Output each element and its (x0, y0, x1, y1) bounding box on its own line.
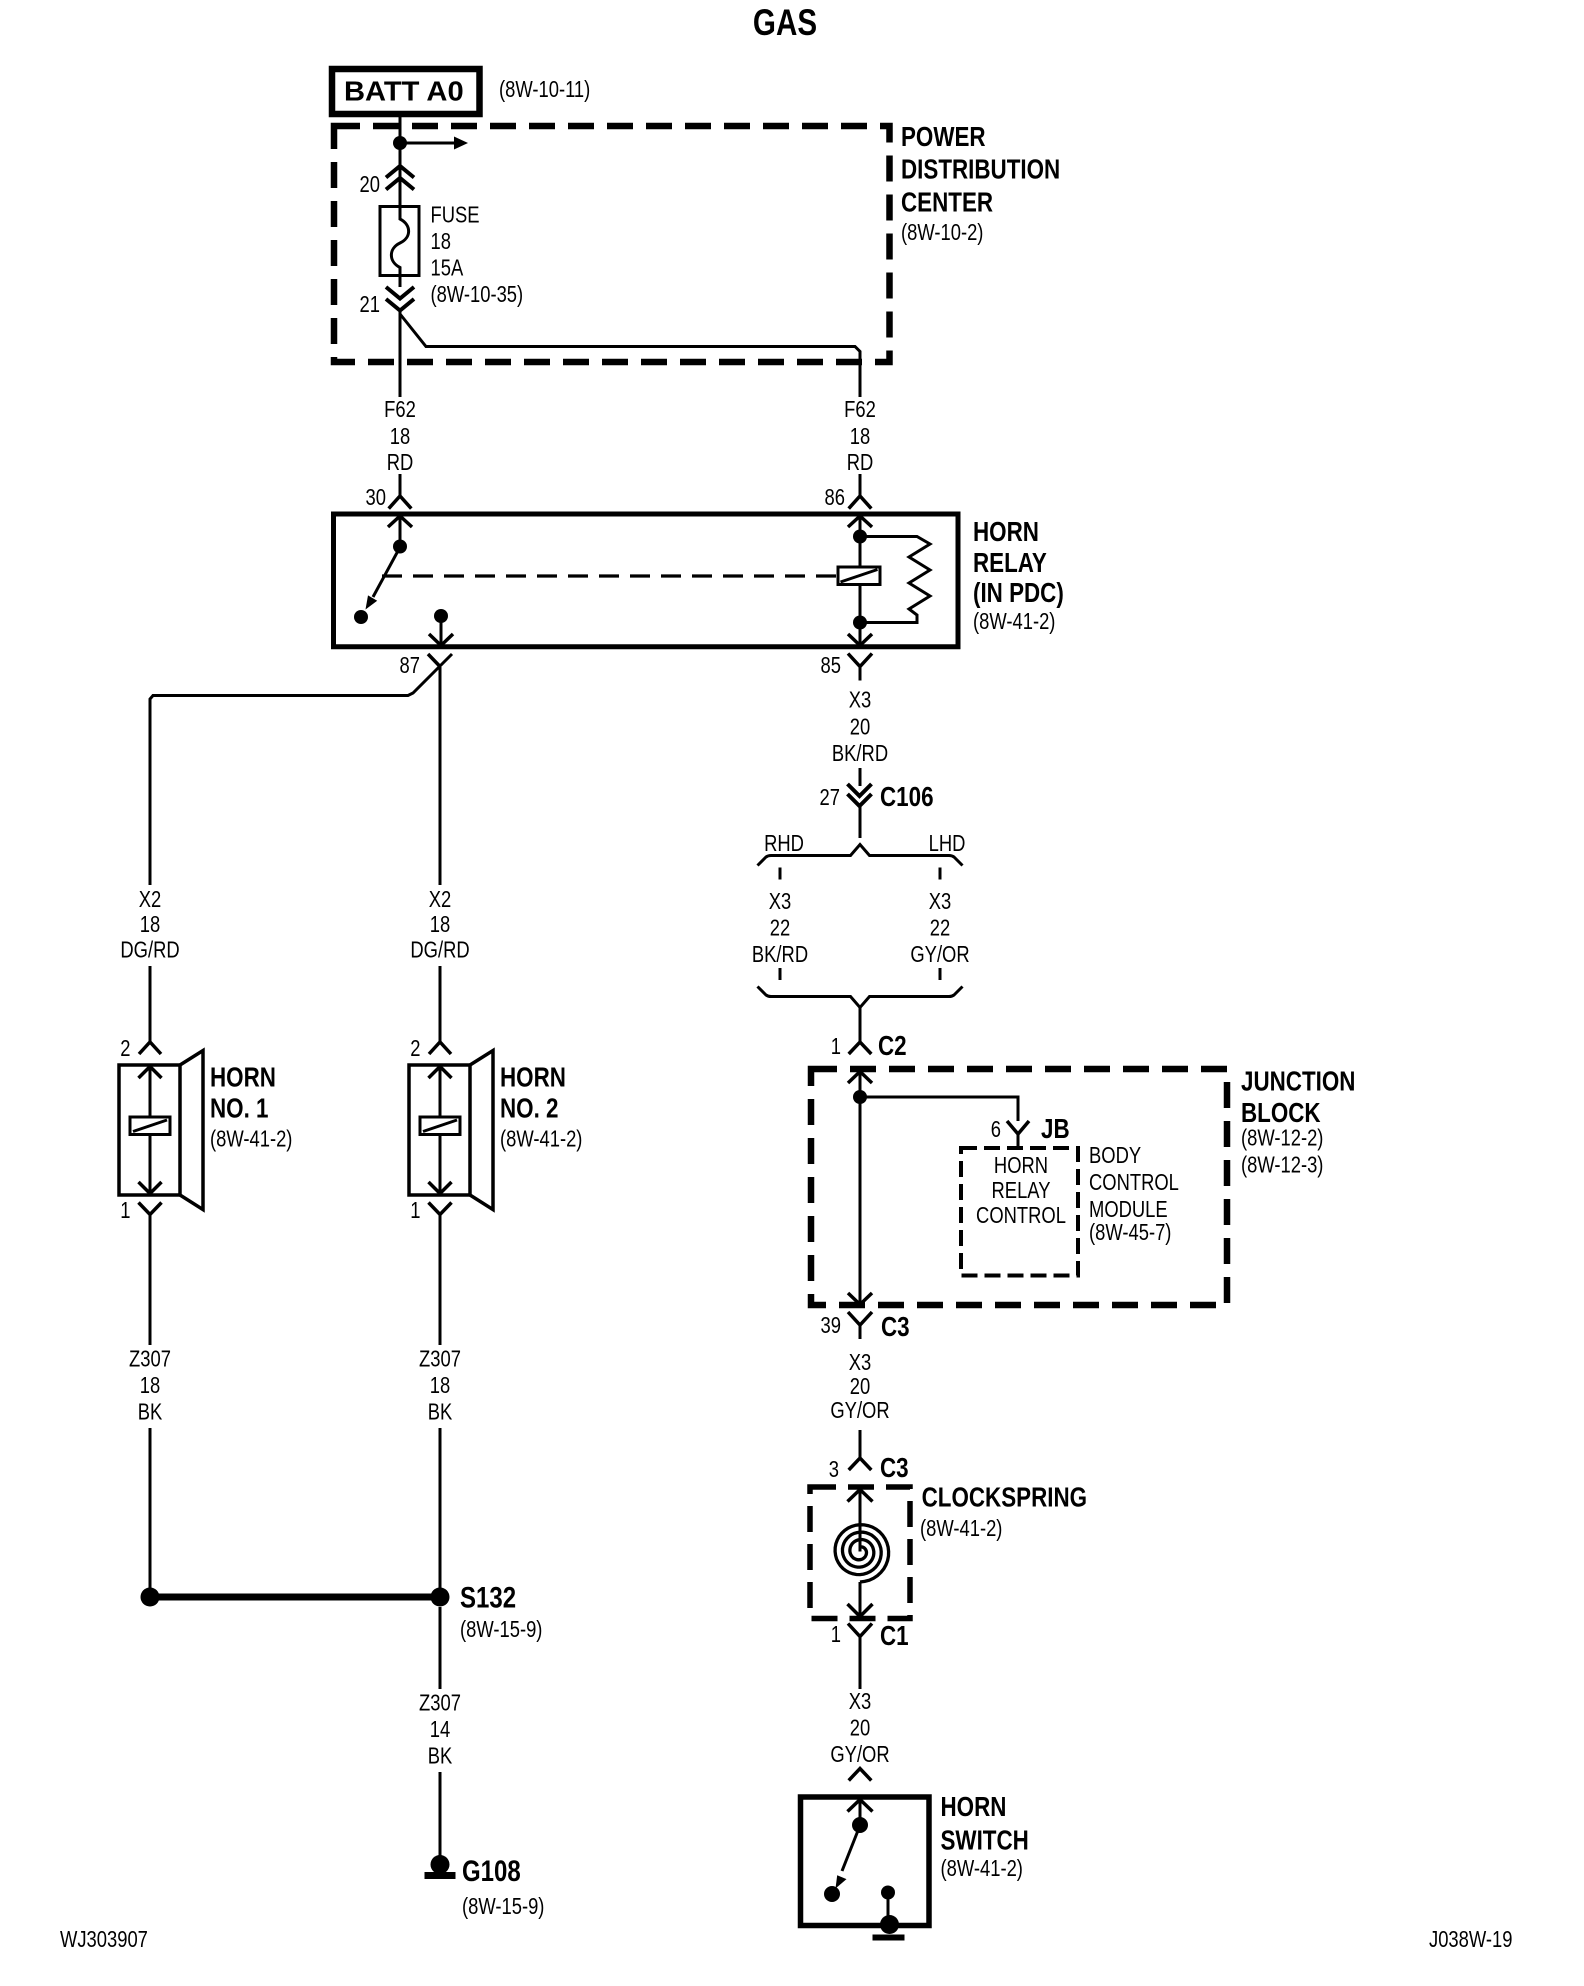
svg-text:SWITCH: SWITCH (941, 1825, 1029, 1856)
svg-text:3: 3 (829, 1457, 839, 1482)
svg-text:X3: X3 (929, 889, 952, 914)
svg-text:20: 20 (360, 172, 380, 197)
svg-text:BK: BK (138, 1400, 163, 1425)
svg-text:GAS: GAS (753, 3, 817, 44)
svg-text:85: 85 (821, 653, 841, 678)
svg-text:2: 2 (120, 1036, 130, 1061)
svg-text:39: 39 (821, 1313, 841, 1338)
svg-text:(8W-41-2): (8W-41-2) (210, 1127, 292, 1152)
svg-text:20: 20 (850, 1374, 870, 1399)
svg-text:BATT A0: BATT A0 (344, 76, 464, 107)
svg-text:(8W-41-2): (8W-41-2) (500, 1127, 582, 1152)
svg-text:(8W-10-11): (8W-10-11) (499, 77, 590, 102)
svg-text:F62: F62 (844, 397, 876, 422)
svg-text:WJ303907: WJ303907 (60, 1927, 148, 1952)
svg-text:Z307: Z307 (419, 1691, 461, 1716)
svg-text:RD: RD (847, 450, 874, 475)
svg-text:(8W-15-9): (8W-15-9) (462, 1894, 544, 1919)
svg-text:(8W-45-7): (8W-45-7) (1089, 1220, 1171, 1245)
svg-text:MODULE: MODULE (1089, 1197, 1168, 1222)
svg-text:18: 18 (430, 1373, 450, 1398)
svg-text:Z307: Z307 (129, 1347, 171, 1372)
svg-text:BLOCK: BLOCK (1241, 1098, 1321, 1129)
svg-text:CENTER: CENTER (901, 187, 993, 218)
svg-text:Z307: Z307 (419, 1347, 461, 1372)
svg-text:(8W-10-2): (8W-10-2) (901, 220, 983, 245)
svg-text:(8W-12-2): (8W-12-2) (1241, 1126, 1323, 1151)
svg-text:C1: C1 (880, 1621, 909, 1652)
svg-text:1: 1 (831, 1034, 841, 1059)
svg-text:BK: BK (428, 1400, 453, 1425)
svg-text:30: 30 (366, 485, 386, 510)
svg-text:18: 18 (390, 424, 410, 449)
svg-text:6: 6 (991, 1117, 1001, 1142)
svg-text:HORN: HORN (500, 1062, 566, 1093)
svg-text:1: 1 (120, 1198, 130, 1223)
svg-text:21: 21 (360, 292, 380, 317)
svg-text:15A: 15A (431, 256, 464, 281)
svg-text:RELAY: RELAY (992, 1178, 1051, 1203)
svg-text:C2: C2 (878, 1031, 907, 1062)
svg-text:HORN: HORN (210, 1062, 276, 1093)
svg-text:CLOCKSPRING: CLOCKSPRING (922, 1482, 1087, 1513)
svg-text:CONTROL: CONTROL (976, 1203, 1066, 1228)
svg-text:C3: C3 (880, 1453, 909, 1484)
svg-text:20: 20 (850, 1716, 870, 1741)
svg-text:14: 14 (430, 1717, 450, 1742)
svg-text:86: 86 (825, 485, 845, 510)
svg-text:18: 18 (430, 912, 450, 937)
svg-text:1: 1 (831, 1622, 841, 1647)
svg-text:18: 18 (140, 912, 160, 937)
svg-text:LHD: LHD (929, 831, 966, 856)
svg-text:20: 20 (850, 715, 870, 740)
svg-text:BODY: BODY (1089, 1143, 1141, 1168)
svg-text:27: 27 (820, 785, 840, 810)
svg-text:J038W-19: J038W-19 (1429, 1927, 1512, 1952)
svg-text:S132: S132 (460, 1580, 516, 1614)
svg-text:(8W-41-2): (8W-41-2) (973, 609, 1055, 634)
svg-text:C106: C106 (880, 782, 934, 813)
svg-text:NO. 2: NO. 2 (500, 1093, 558, 1124)
svg-text:X2: X2 (139, 887, 162, 912)
svg-text:X3: X3 (849, 1689, 872, 1714)
svg-text:22: 22 (930, 916, 950, 941)
svg-text:BK/RD: BK/RD (752, 942, 808, 967)
svg-text:BK/RD: BK/RD (832, 741, 888, 766)
svg-text:RELAY: RELAY (973, 548, 1047, 579)
svg-text:RHD: RHD (764, 831, 804, 856)
svg-text:DISTRIBUTION: DISTRIBUTION (901, 154, 1060, 185)
svg-text:JB: JB (1041, 1114, 1070, 1145)
svg-text:GY/OR: GY/OR (830, 1398, 889, 1423)
svg-text:X3: X3 (849, 688, 872, 713)
svg-text:22: 22 (770, 916, 790, 941)
svg-text:X2: X2 (429, 887, 452, 912)
svg-text:(8W-12-3): (8W-12-3) (1241, 1153, 1323, 1178)
svg-text:18: 18 (431, 229, 451, 254)
svg-text:18: 18 (850, 424, 870, 449)
svg-text:HORN: HORN (941, 1792, 1007, 1823)
svg-text:(8W-10-35): (8W-10-35) (431, 282, 524, 307)
svg-text:X3: X3 (769, 889, 792, 914)
svg-text:(8W-41-2): (8W-41-2) (920, 1516, 1002, 1541)
svg-text:2: 2 (410, 1036, 420, 1061)
svg-text:CONTROL: CONTROL (1089, 1170, 1179, 1195)
svg-text:C3: C3 (881, 1312, 910, 1343)
svg-text:RD: RD (387, 450, 414, 475)
svg-text:(IN PDC): (IN PDC) (973, 578, 1064, 609)
svg-text:(8W-41-2): (8W-41-2) (941, 1856, 1023, 1881)
svg-text:HORN: HORN (973, 517, 1039, 548)
svg-text:HORN: HORN (994, 1153, 1048, 1178)
svg-text:NO. 1: NO. 1 (210, 1093, 268, 1124)
svg-text:G108: G108 (462, 1853, 521, 1887)
svg-text:BK: BK (428, 1744, 453, 1769)
svg-text:JUNCTION: JUNCTION (1241, 1066, 1355, 1097)
svg-text:GY/OR: GY/OR (910, 942, 969, 967)
svg-text:F62: F62 (384, 397, 416, 422)
svg-text:X3: X3 (849, 1350, 872, 1375)
svg-text:87: 87 (400, 653, 420, 678)
svg-text:(8W-15-9): (8W-15-9) (460, 1617, 542, 1642)
svg-text:DG/RD: DG/RD (120, 938, 179, 963)
svg-text:DG/RD: DG/RD (410, 938, 469, 963)
svg-text:GY/OR: GY/OR (830, 1742, 889, 1767)
svg-text:POWER: POWER (901, 122, 986, 153)
svg-text:18: 18 (140, 1373, 160, 1398)
svg-text:1: 1 (410, 1198, 420, 1223)
svg-text:FUSE: FUSE (431, 203, 480, 228)
